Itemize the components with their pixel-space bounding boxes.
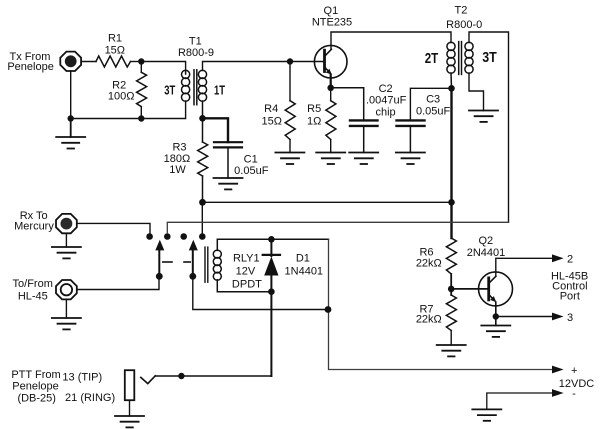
- node H D1 top junction: [268, 236, 275, 243]
- svg-text:R5: R5: [307, 103, 321, 115]
- label R5 1ohm: [307, 103, 321, 128]
- svg-text:15Ω: 15Ω: [261, 116, 281, 128]
- wire T2 secondary top right: [469, 32, 509, 222]
- resistor R5: [326, 88, 336, 153]
- resistor R1: [96, 56, 131, 67]
- mechanical link dashes: [163, 261, 190, 263]
- jack tip contact: [141, 376, 156, 384]
- resistor R4: [285, 62, 295, 153]
- svg-text:D1: D1: [296, 253, 310, 265]
- svg-text:+: +: [571, 365, 577, 377]
- label R1 15ohm: [105, 33, 125, 57]
- svg-text:2T: 2T: [425, 50, 439, 67]
- svg-text:1W: 1W: [169, 164, 186, 176]
- transistor Q2: [479, 272, 513, 306]
- resistor R3: [198, 118, 208, 202]
- svg-text:100Ω: 100Ω: [108, 91, 135, 103]
- svg-text:RLY1: RLY1: [233, 253, 260, 265]
- wire Q1 collector to T2: [331, 32, 451, 49]
- node K junction Q2 base: [448, 286, 455, 293]
- wire pole2 down and right: [193, 276, 329, 309]
- ground below Tx: [56, 119, 85, 149]
- arrowhead pin 2: [552, 254, 564, 262]
- wire C1 bottom: [227, 147, 229, 178]
- svg-text:3T: 3T: [164, 83, 175, 98]
- svg-text:R2: R2: [112, 79, 126, 91]
- label R3 180ohm 1W: [164, 142, 191, 177]
- svg-text:To/From: To/From: [13, 278, 53, 290]
- node L emitter junction: [493, 313, 499, 319]
- svg-text:PTT From: PTT From: [11, 369, 60, 381]
- wire node G down to relay contact 4: [201, 202, 203, 233]
- transformer T2: [447, 42, 473, 75]
- resistor R6: [446, 238, 456, 289]
- svg-text:0.05uF: 0.05uF: [234, 165, 269, 177]
- label C2 .0047uF chip: [366, 83, 407, 119]
- svg-text:12VDC: 12VDC: [559, 378, 595, 390]
- wire coil bottom: [217, 280, 271, 292]
- svg-text:HL-45: HL-45: [18, 290, 48, 302]
- ground below R4: [275, 153, 304, 165]
- svg-text:12V: 12V: [236, 266, 256, 278]
- svg-text:0.05uF: 0.05uF: [416, 106, 451, 118]
- capacitor C2: [350, 120, 378, 126]
- ground below Rx: [52, 247, 81, 258]
- ground below T2: [469, 111, 498, 122]
- wire Tx connector down: [70, 71, 72, 119]
- wire contact 2 to T2 secondary: [167, 222, 508, 233]
- ground below Q2: [481, 326, 510, 337]
- node B junction R4: [287, 58, 293, 64]
- wire Q1 emitter: [330, 75, 332, 88]
- connector J1 Tx From Penelope: [60, 52, 81, 71]
- resistor R2: [137, 62, 147, 119]
- svg-text:R1: R1: [108, 33, 122, 45]
- wire C2 bottom: [363, 126, 365, 153]
- ground below jack: [115, 416, 144, 427]
- wire +12V vertical rail: [329, 239, 553, 369]
- wire bottom bus node G to node F: [203, 201, 452, 203]
- diode D1: [263, 239, 280, 291]
- svg-text:1T: 1T: [214, 83, 225, 98]
- svg-text:Penelope: Penelope: [12, 381, 59, 393]
- wire D1 anode down to PTT line: [270, 292, 272, 376]
- node C junction: [199, 115, 206, 122]
- svg-text:Mercury: Mercury: [14, 221, 54, 233]
- label Q2 2N4401: [467, 235, 506, 259]
- ground below C2: [349, 153, 378, 165]
- ground below R5: [316, 153, 345, 165]
- wire node E down to node F: [450, 88, 452, 238]
- svg-text:R4: R4: [264, 103, 278, 115]
- label pin 3: [567, 312, 573, 324]
- svg-text:Q2: Q2: [478, 235, 493, 247]
- wire bottom rail to T1 primary bottom: [71, 101, 186, 119]
- relay contact 4: [199, 233, 206, 240]
- arrowhead plus 12VDC: [552, 366, 564, 374]
- relay armature 1: [155, 240, 164, 276]
- node D emitter junction: [327, 85, 334, 92]
- svg-text:21 (RING): 21 (RING): [65, 392, 115, 404]
- wire T2 primary bottom node E: [450, 73, 453, 88]
- svg-text:Port: Port: [560, 290, 580, 302]
- wire R1 to node A: [131, 61, 142, 63]
- svg-text:13 (TIP): 13 (TIP): [62, 372, 102, 384]
- wire emitter to pin 3: [496, 316, 553, 318]
- wire connector to R1: [81, 61, 96, 63]
- wire HL-45 ground stem: [65, 299, 67, 318]
- label Tx From Penelope: [7, 51, 54, 73]
- wire Q2 emitter to ground: [495, 317, 497, 326]
- label T1 R800-9: [164, 35, 225, 97]
- label R6 22k: [416, 247, 442, 270]
- wire C3 bottom: [409, 126, 411, 153]
- node E junction: [448, 85, 455, 92]
- wire jack sleeve to ground: [129, 400, 131, 416]
- wire T2 secondary bottom to ground: [469, 73, 484, 111]
- label HL-45B Control Port: [551, 271, 588, 303]
- relay contact 1: [146, 233, 153, 240]
- svg-text:2N4401: 2N4401: [467, 247, 506, 259]
- label Rx To Mercury: [14, 210, 54, 233]
- jack plug body: [125, 370, 135, 400]
- svg-text:1Ω: 1Ω: [307, 116, 321, 128]
- armature pivot 1: [156, 273, 163, 280]
- armature pivot 2: [189, 273, 196, 280]
- wire node A to T1 primary top: [141, 62, 185, 71]
- wire HL-45 connector to relay pole 1: [77, 276, 159, 289]
- wire minus lead: [487, 393, 553, 409]
- svg-text:chip: chip: [376, 107, 396, 119]
- svg-text:Q1: Q1: [324, 5, 339, 17]
- capacitor C1: [214, 142, 242, 147]
- arrowhead minus 12VDC: [552, 389, 564, 397]
- label D1 1N4401: [285, 253, 324, 278]
- wire Q2 collector to pin 2: [496, 258, 553, 276]
- transformer T1: [182, 70, 207, 105]
- relay RLY1 coil: [205, 247, 221, 282]
- wire node K to Q2 base: [451, 288, 489, 290]
- wire node C to C1: [203, 118, 229, 142]
- svg-text:3: 3: [567, 312, 573, 324]
- svg-text:T2: T2: [454, 5, 467, 17]
- svg-text:3T: 3T: [482, 49, 497, 66]
- svg-text:R800-9: R800-9: [178, 47, 214, 59]
- svg-text:1N4401: 1N4401: [285, 266, 324, 278]
- svg-text:22kΩ: 22kΩ: [416, 314, 442, 326]
- wire Rx connector to relay contact 1: [77, 223, 150, 233]
- svg-text:2: 2: [567, 253, 573, 265]
- wire T1 secondary bottom: [202, 101, 204, 118]
- label T2 R800-0: [425, 5, 497, 68]
- svg-text:.0047uF: .0047uF: [366, 95, 407, 107]
- relay contact 3: [180, 233, 187, 240]
- svg-text:T1: T1: [189, 35, 202, 47]
- ground below C3: [396, 153, 425, 165]
- svg-text:15Ω: 15Ω: [105, 44, 125, 56]
- node F junction: [448, 199, 455, 206]
- label R2 100ohm: [108, 79, 135, 102]
- svg-text:Penelope: Penelope: [7, 61, 54, 73]
- svg-text:C3: C3: [426, 93, 440, 105]
- svg-text:R800-0: R800-0: [446, 19, 482, 31]
- ground below R7: [437, 345, 466, 356]
- svg-text:C2: C2: [379, 83, 393, 95]
- wire emitter to C2: [331, 88, 364, 120]
- svg-text:DPDT: DPDT: [232, 279, 262, 291]
- ground below minus: [472, 409, 501, 420]
- node G junction R3 bottom: [199, 199, 206, 206]
- label Q1 NTE235: [312, 5, 352, 28]
- ground below HL-45: [52, 318, 81, 329]
- label pin 2: [567, 253, 573, 265]
- resistor R7: [446, 289, 456, 345]
- wire Rx ground stem: [65, 233, 67, 247]
- wire PTT line: [155, 375, 271, 377]
- wire Q2 emitter: [495, 302, 497, 317]
- wire coil top to +12V rail: [217, 239, 328, 250]
- node junction rail left: [68, 115, 74, 121]
- label RLY1 12V DPDT: [232, 253, 262, 291]
- label C1 0.05uF: [234, 154, 269, 178]
- svg-text:-: -: [572, 388, 576, 400]
- transistor Q1: [314, 45, 347, 78]
- relay contact 2: [164, 233, 171, 240]
- svg-text:NTE235: NTE235: [312, 17, 352, 29]
- node I D1 bottom junction: [268, 288, 275, 295]
- label To/From HL-45: [13, 278, 53, 302]
- ground below C1: [214, 178, 243, 189]
- label C3 0.05uF: [416, 93, 451, 117]
- node J junction on +12V rail: [325, 306, 332, 313]
- label +12VDC: [559, 365, 595, 400]
- label R7 22k: [416, 304, 442, 326]
- arrowhead pin 3: [552, 313, 564, 321]
- svg-text:22kΩ: 22kΩ: [416, 257, 442, 269]
- node A junction: [138, 58, 144, 64]
- wire C3 top to node E: [410, 88, 451, 120]
- svg-text:(DB-25): (DB-25): [17, 392, 56, 404]
- wire T1 secondary top to Q1 base: [203, 62, 325, 71]
- svg-text:R3: R3: [172, 142, 186, 154]
- label R4 15ohm: [261, 103, 281, 127]
- relay armature 2: [189, 240, 198, 276]
- connector J3 To/From HL-45: [56, 280, 77, 299]
- label PTT From Penelope DB-25: [11, 369, 115, 405]
- node junction R2 bottom: [138, 115, 144, 121]
- connector J2 Rx To Mercury: [56, 214, 77, 233]
- node M junction on PTT line: [178, 373, 184, 379]
- svg-text:C1: C1: [244, 154, 258, 166]
- capacitor C3: [397, 120, 425, 126]
